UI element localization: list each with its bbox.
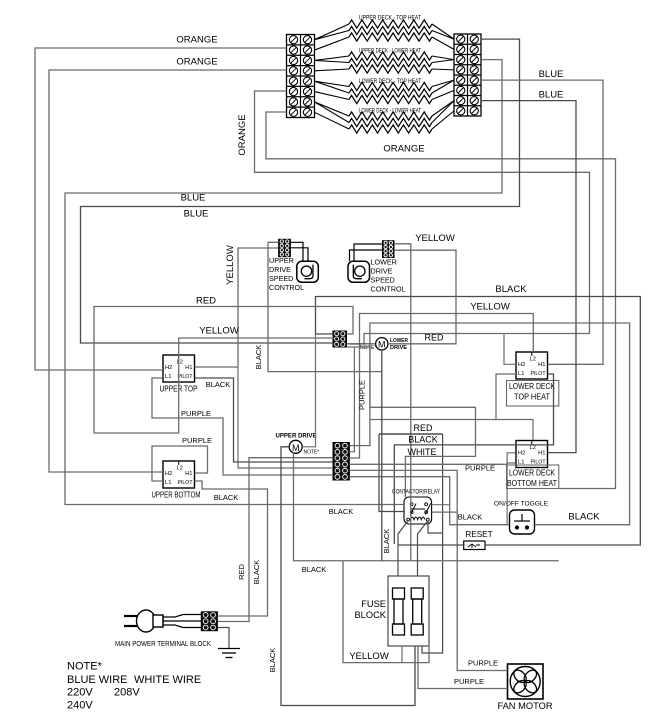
svg-text:LOWER: LOWER — [390, 338, 408, 344]
svg-text:BLACK: BLACK — [252, 560, 261, 585]
svg-text:PURPLE: PURPLE — [468, 659, 498, 668]
svg-text:BLUE: BLUE — [539, 90, 564, 101]
svg-text:CONTACTOR/RELAY: CONTACTOR/RELAY — [392, 489, 441, 496]
svg-text:CONTROL: CONTROL — [371, 285, 406, 294]
svg-text:RED: RED — [237, 564, 246, 580]
svg-text:YELLOW: YELLOW — [349, 651, 389, 662]
svg-text:RED: RED — [413, 423, 433, 433]
svg-text:YELLOW: YELLOW — [199, 326, 239, 337]
svg-text:208V: 208V — [114, 687, 140, 699]
svg-text:RESET: RESET — [465, 530, 492, 539]
svg-text:BLUE: BLUE — [539, 69, 564, 80]
svg-text:DRIVE: DRIVE — [390, 345, 407, 351]
svg-text:LOWER DECK - TOP HEAT: LOWER DECK - TOP HEAT — [359, 78, 421, 85]
svg-text:LOWER DECK: LOWER DECK — [509, 382, 556, 391]
svg-text:NOTE*: NOTE* — [304, 450, 320, 456]
svg-text:PURPLE: PURPLE — [358, 380, 367, 410]
svg-text:WHITE WIRE: WHITE WIRE — [134, 674, 201, 686]
svg-text:BLUE WIRE: BLUE WIRE — [67, 674, 128, 686]
svg-text:RED: RED — [424, 333, 444, 343]
svg-text:BLACK: BLACK — [458, 513, 483, 522]
svg-text:ON/OFF TOGGLE: ON/OFF TOGGLE — [494, 501, 549, 508]
svg-text:H2: H2 — [165, 471, 172, 477]
svg-text:ORANGE: ORANGE — [237, 114, 248, 155]
svg-text:BLACK: BLACK — [302, 565, 327, 574]
svg-text:BLACK: BLACK — [206, 380, 231, 389]
svg-text:UPPER DECK - LOWER HEAT: UPPER DECK - LOWER HEAT — [359, 48, 421, 55]
svg-text:PILOT: PILOT — [178, 374, 194, 380]
svg-text:BLACK: BLACK — [382, 529, 391, 554]
svg-text:H2: H2 — [518, 362, 525, 368]
svg-text:BLACK: BLACK — [408, 435, 438, 445]
svg-text:ORANGE: ORANGE — [176, 57, 217, 68]
svg-text:LOWER DECK: LOWER DECK — [509, 469, 556, 478]
svg-text:BLUE: BLUE — [184, 209, 209, 220]
svg-text:YELLOW: YELLOW — [415, 233, 455, 244]
svg-text:BLACK: BLACK — [495, 284, 527, 295]
svg-text:UPPER DRIVE: UPPER DRIVE — [276, 433, 317, 440]
svg-text:UPPER DECK - TOP HEAT: UPPER DECK - TOP HEAT — [359, 15, 421, 22]
svg-text:BLACK: BLACK — [214, 493, 239, 502]
svg-text:BLACK: BLACK — [254, 345, 263, 370]
svg-text:H1: H1 — [185, 365, 192, 371]
svg-text:DRIVE: DRIVE — [269, 265, 291, 274]
svg-text:H1: H1 — [538, 362, 545, 368]
svg-text:MAIN POWER TERMINAL BLOCK: MAIN POWER TERMINAL BLOCK — [115, 641, 211, 648]
svg-text:M: M — [378, 340, 386, 350]
svg-text:BOTTOM HEAT: BOTTOM HEAT — [507, 479, 557, 488]
svg-text:UPPER BOTTOM: UPPER BOTTOM — [152, 491, 201, 500]
svg-text:H1: H1 — [538, 451, 545, 457]
svg-text:RED: RED — [196, 296, 216, 307]
svg-text:BLACK: BLACK — [268, 648, 277, 673]
svg-text:BLACK: BLACK — [568, 512, 600, 523]
svg-text:H1: H1 — [185, 471, 192, 477]
svg-text:PILOT: PILOT — [178, 480, 194, 486]
svg-text:CONTROL: CONTROL — [269, 283, 304, 292]
svg-text:UPPER: UPPER — [269, 256, 294, 265]
svg-text:PILOT: PILOT — [531, 371, 547, 377]
svg-text:L2: L2 — [530, 357, 536, 363]
svg-text:H2: H2 — [165, 365, 172, 371]
svg-text:M: M — [292, 443, 300, 453]
svg-text:H2: H2 — [518, 451, 525, 457]
svg-text:NOTE*: NOTE* — [360, 345, 376, 351]
svg-text:SPEED: SPEED — [269, 274, 293, 283]
svg-text:220V: 220V — [67, 687, 93, 699]
svg-text:ORANGE: ORANGE — [176, 35, 217, 46]
svg-text:PURPLE: PURPLE — [454, 677, 484, 686]
svg-text:TOP HEAT: TOP HEAT — [514, 393, 550, 402]
svg-text:L1: L1 — [165, 480, 171, 486]
svg-text:PURPLE: PURPLE — [182, 436, 212, 445]
svg-text:240V: 240V — [67, 700, 93, 712]
svg-text:LOWER DECK - LOWER HEAT: LOWER DECK - LOWER HEAT — [359, 108, 421, 115]
svg-text:FUSE: FUSE — [361, 599, 386, 609]
svg-text:PURPLE: PURPLE — [181, 409, 211, 418]
svg-text:L2: L2 — [177, 466, 183, 472]
svg-text:L2: L2 — [177, 360, 183, 366]
svg-text:BLOCK: BLOCK — [354, 610, 386, 620]
svg-text:YELLOW: YELLOW — [470, 302, 510, 313]
svg-text:BLACK: BLACK — [329, 507, 354, 516]
svg-text:BLUE: BLUE — [181, 193, 206, 204]
svg-text:FAN MOTOR: FAN MOTOR — [497, 701, 552, 711]
svg-text:PURPLE: PURPLE — [465, 464, 495, 473]
svg-text:L1: L1 — [518, 371, 524, 377]
svg-text:L1: L1 — [165, 374, 171, 380]
svg-text:YELLOW: YELLOW — [225, 245, 236, 285]
svg-text:WHITE: WHITE — [408, 447, 437, 457]
svg-text:L2: L2 — [530, 445, 536, 451]
svg-text:NOTE*: NOTE* — [67, 661, 103, 673]
svg-text:ORANGE: ORANGE — [383, 144, 424, 155]
svg-text:DRIVE: DRIVE — [371, 267, 393, 276]
svg-text:SPEED: SPEED — [371, 276, 395, 285]
svg-text:LOWER: LOWER — [371, 258, 397, 267]
